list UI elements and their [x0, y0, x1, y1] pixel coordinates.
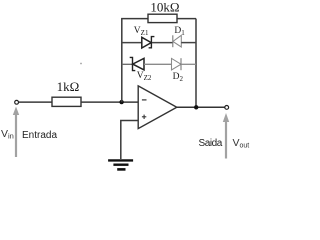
label Saida — [199, 138, 223, 149]
node junction dot at output — [194, 105, 198, 109]
op-amp U1 — [138, 86, 177, 129]
wire op-amp non-inverting input to ground — [121, 121, 138, 160]
label Vz1 — [134, 26, 149, 37]
label Vin — [1, 128, 14, 141]
node junction dot at inverting input — [119, 100, 123, 104]
wire row2 left rail to Vz2 — [122, 63, 133, 65]
diode D1 — [173, 35, 182, 47]
resistor R1 1kΩ body — [52, 97, 81, 106]
wire Vz2 to D2 — [144, 63, 172, 65]
label D1 — [174, 26, 185, 37]
input signal arrow — [13, 107, 19, 158]
wire row1 left rail to Vz1 — [122, 42, 142, 44]
stray speck — [80, 63, 82, 65]
wire D1 to right rail — [181, 42, 196, 44]
wire resistor to op-amp inverting input — [81, 101, 138, 103]
zener diode Vz1 — [142, 37, 155, 48]
label Entrada — [22, 130, 57, 141]
label Vout — [233, 137, 250, 150]
value label 10kΩ — [150, 0, 179, 15]
input terminal circle — [15, 100, 19, 104]
ground — [108, 160, 133, 169]
svg-text:1kΩ: 1kΩ — [57, 79, 80, 94]
value label 1kΩ — [57, 79, 80, 94]
wire Vz1 to D1 — [152, 42, 173, 44]
output terminal circle — [225, 106, 229, 110]
label Vz2 — [137, 71, 152, 82]
label D2 — [173, 72, 184, 83]
wire input to resistor R1 — [19, 101, 52, 103]
wire op-amp output to output terminal — [177, 106, 225, 108]
diode D2 — [172, 58, 182, 70]
zener diode Vz2 — [130, 57, 144, 70]
wire D2 to right rail — [181, 63, 196, 65]
resistor R2 10kΩ body — [148, 14, 177, 22]
output signal arrow — [223, 113, 229, 159]
wire top left to resistor R2 — [121, 18, 148, 20]
svg-text:Saida: Saida — [199, 138, 223, 149]
wire right feedback rail (vertical) — [195, 19, 197, 108]
svg-text:Entrada: Entrada — [22, 130, 57, 141]
wire resistor R2 to right rail — [177, 18, 196, 20]
wire left feedback rail (vertical) — [121, 19, 123, 103]
svg-text:10kΩ: 10kΩ — [150, 0, 179, 15]
